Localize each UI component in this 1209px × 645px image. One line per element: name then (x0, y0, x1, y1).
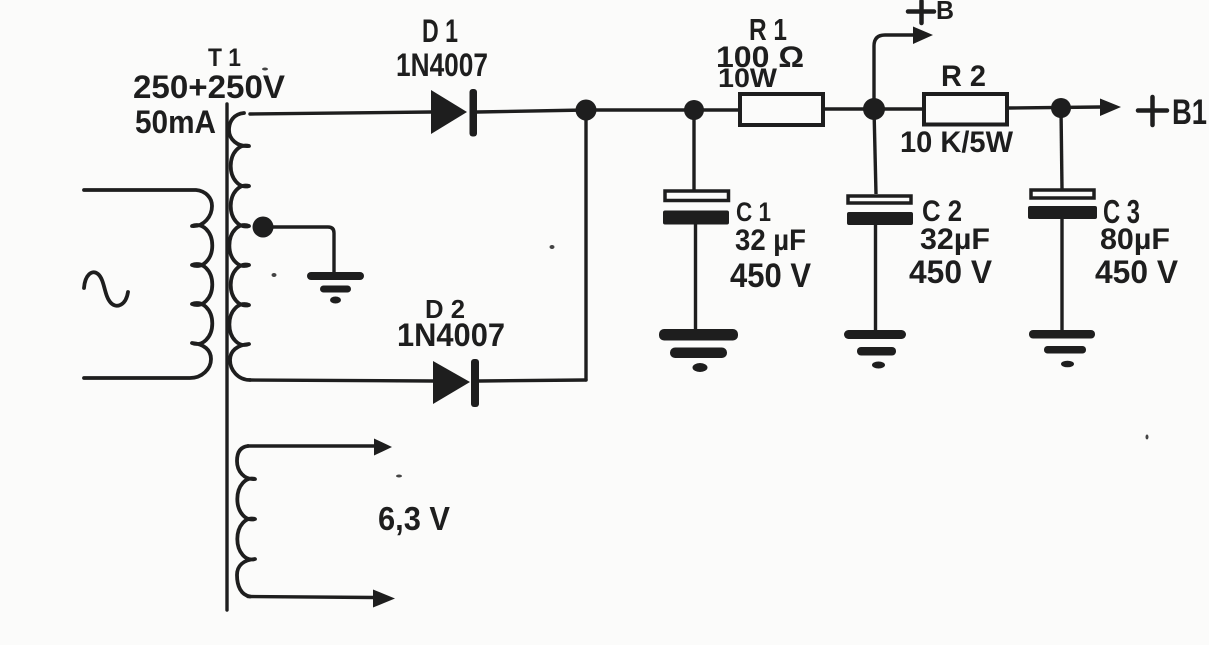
diode D1 triangle (431, 90, 467, 134)
resistor R2 body (924, 94, 1007, 125)
center tap node (253, 217, 274, 238)
svg-text:10 K/5W: 10 K/5W (900, 126, 1014, 159)
svg-text:80µF: 80µF (1100, 223, 1170, 256)
transformer T1 primary winding (84, 190, 212, 378)
svg-text:1N4007: 1N4007 (397, 317, 505, 353)
6.3V top arrowhead (374, 439, 392, 456)
svg-text:C 1: C 1 (736, 197, 771, 227)
diode D1 cathode bar (470, 89, 478, 137)
AC sine symbol (84, 272, 128, 305)
svg-text:450 V: 450 V (730, 257, 811, 295)
C3 ground (1029, 330, 1095, 367)
+B branch wire up with corner (874, 35, 915, 109)
node C1 (684, 100, 704, 120)
svg-text:10W: 10W (718, 63, 778, 93)
wire: junction to R1, through C1 node (586, 108, 738, 111)
C2 top plate (848, 196, 911, 203)
node C3 (1051, 98, 1071, 118)
C1 bottom plate (663, 211, 729, 225)
svg-text:6,3 V: 6,3 V (378, 500, 450, 537)
6.3V bottom arrowhead (373, 590, 395, 608)
capacitor C2 (844, 109, 913, 369)
wire: D1 cathode to junction (477, 110, 586, 112)
capacitor C3 (1028, 108, 1097, 367)
svg-text:32 µF: 32 µF (735, 224, 806, 257)
6.3V bottom arrow shaft (248, 597, 374, 598)
svg-text:1N4007: 1N4007 (396, 47, 488, 83)
label +B plus sign (908, 1, 934, 23)
C1 top lead (692, 110, 695, 190)
C1 bottom lead (694, 224, 697, 331)
paper specks (262, 68, 1149, 478)
wire: D2 cathode to junction vertical (479, 380, 586, 381)
junction node after D1 (576, 100, 597, 121)
+B arrowhead (913, 27, 933, 45)
C2 ground (844, 330, 906, 369)
svg-text:R 2: R 2 (941, 60, 986, 93)
diode D2 cathode bar (471, 359, 479, 407)
svg-text:D 1: D 1 (422, 13, 458, 49)
C3 bottom plate (1028, 206, 1097, 219)
C3 top lead (1061, 108, 1062, 189)
svg-text:B: B (936, 0, 954, 25)
transformer center tap wire to ground (263, 227, 334, 274)
wire: R1 right to R2 left through +B node (825, 107, 922, 110)
svg-text:B1: B1 (1172, 93, 1207, 132)
wire: secondary top to D1 (250, 112, 431, 114)
svg-text:50mA: 50mA (135, 104, 216, 140)
C2 top lead (874, 109, 876, 194)
resistor R1 body (740, 94, 823, 125)
C2 bottom plate (847, 212, 913, 225)
svg-text:32µF: 32µF (920, 223, 990, 256)
svg-text:450 V: 450 V (909, 254, 993, 290)
svg-text:250+250V: 250+250V (133, 69, 286, 105)
node +B (863, 98, 885, 120)
svg-text:450 V: 450 V (1095, 254, 1179, 290)
+B1 arrowhead (1100, 99, 1121, 117)
wire: R2 right to +B1 arrow through C3 node (1009, 107, 1101, 108)
wire: junction vertical down to D2 output (584, 110, 587, 380)
label +B1 plus sign (1138, 97, 1167, 125)
transformer T1 secondary winding (HV) (229, 113, 250, 380)
C3 top plate (1031, 190, 1094, 198)
wire: secondary bottom to D2 (250, 380, 433, 381)
transformer T1 core (225, 104, 228, 610)
C1 top plate (665, 191, 729, 201)
svg-text:T 1: T 1 (208, 44, 241, 72)
6.3V winding (237, 446, 255, 597)
capacitor C1 (659, 110, 738, 372)
6.3V top arrow shaft (248, 444, 375, 447)
C1 ground (659, 329, 738, 372)
center tap ground (307, 272, 364, 304)
C3 bottom lead (1060, 219, 1063, 331)
C2 bottom lead (874, 225, 877, 331)
diode D2 triangle (433, 361, 470, 404)
